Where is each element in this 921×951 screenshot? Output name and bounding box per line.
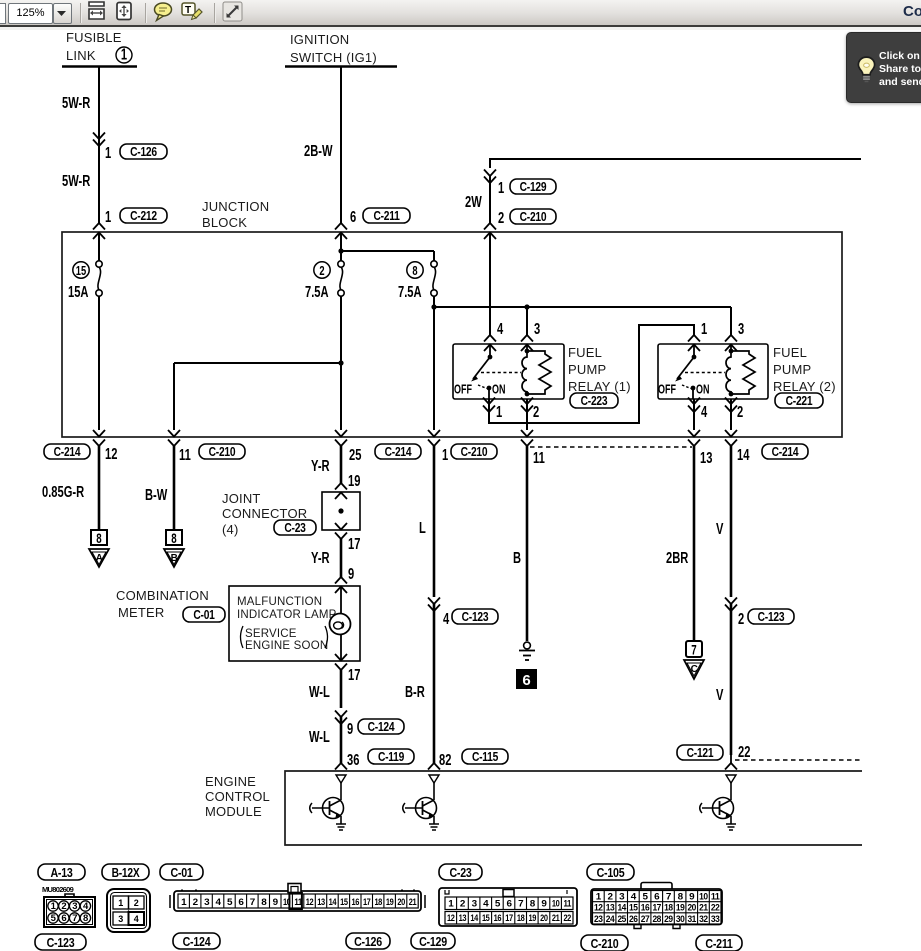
svg-text:12: 12 [306, 897, 314, 908]
ECM transistor Q2 [403, 775, 439, 830]
joint connector pin 19 [348, 472, 360, 489]
svg-text:C-105: C-105 [597, 865, 625, 880]
svg-text:PUMP: PUMP [568, 362, 606, 377]
relay1 pin 1 wire to relay2 pin 1 [483, 325, 700, 423]
svg-text:B-R: B-R [405, 683, 425, 700]
svg-text:19: 19 [348, 472, 360, 489]
exit crossing pin 25 [335, 430, 347, 446]
ground triangle A [89, 549, 109, 567]
svg-text:CONTROL: CONTROL [205, 789, 270, 804]
svg-text:20: 20 [540, 913, 548, 924]
svg-text:9: 9 [689, 892, 694, 903]
svg-text:18: 18 [517, 913, 525, 924]
svg-text:12: 12 [105, 445, 117, 462]
label B [513, 549, 521, 566]
connector C-210 pin 1 [442, 444, 497, 463]
connector C-210 pin 11 [179, 444, 245, 463]
connector C-212 pin 1 [105, 208, 167, 225]
svg-text:28: 28 [652, 914, 661, 925]
label Y-R upper [311, 457, 330, 474]
wire 2B-W from ignition switch [335, 66, 347, 239]
svg-text:12: 12 [447, 913, 455, 924]
svg-text:1: 1 [701, 320, 708, 337]
svg-text:C-119: C-119 [378, 751, 404, 764]
label V upper [716, 520, 723, 537]
connector C-211 pin 6 [350, 208, 410, 225]
svg-text:17: 17 [363, 897, 371, 908]
svg-text:5W-R: 5W-R [62, 172, 90, 189]
svg-text:MU802609: MU802609 [42, 885, 74, 894]
label W-L upper [309, 683, 330, 700]
lightbulb icon [858, 57, 874, 75]
A-13 part number [42, 885, 74, 894]
label B-W [145, 486, 168, 503]
svg-text:19: 19 [529, 913, 537, 924]
connector 7 box [686, 641, 702, 658]
svg-text:10: 10 [699, 892, 708, 903]
combination meter C-01 pill [183, 607, 225, 622]
svg-text:14: 14 [329, 897, 337, 908]
wire to relay1 pin 3 [521, 307, 533, 351]
svg-text:C-115: C-115 [472, 751, 499, 764]
connector C-123 pin 4 [443, 609, 498, 627]
svg-text:W-L: W-L [309, 683, 330, 700]
wire V [725, 446, 737, 770]
fusible link label [62, 30, 137, 67]
svg-text:C-210: C-210 [520, 211, 547, 224]
svg-text:SERVICE: SERVICE [245, 628, 297, 640]
joint connector box C-23 [322, 492, 360, 530]
exit crossing pin 12 [93, 430, 105, 446]
svg-text:B-W: B-W [145, 486, 168, 503]
svg-text:22: 22 [738, 743, 750, 760]
label 11 under relay1 [533, 449, 545, 466]
svg-text:LINK: LINK [66, 48, 96, 63]
svg-text:C-126: C-126 [354, 934, 382, 949]
svg-text:ENGINE: ENGINE [205, 774, 256, 789]
svg-text:3: 3 [472, 899, 477, 910]
label V lower [716, 686, 723, 703]
svg-text:8: 8 [412, 265, 417, 279]
svg-text:W-L: W-L [309, 728, 330, 745]
svg-text:B-12X: B-12X [112, 867, 140, 880]
svg-text:2: 2 [738, 610, 744, 627]
ground triangle B [164, 549, 184, 567]
exit crossing pin 11 [168, 430, 180, 446]
wire W-L to ECM [335, 670, 347, 770]
connector C-211 pill (bottom) [696, 935, 742, 951]
svg-text:3: 3 [118, 914, 123, 924]
svg-text:13: 13 [700, 449, 713, 466]
svg-text:7: 7 [691, 643, 697, 658]
svg-text:C-211: C-211 [705, 936, 733, 951]
relay2 pin 2 wire down [725, 398, 737, 447]
connector C-129 pin 1 [498, 179, 556, 196]
svg-text:17: 17 [505, 913, 513, 924]
relay1 pin 2 label [533, 403, 539, 420]
malfunction indicator lamp text [237, 596, 337, 621]
svg-text:C-214: C-214 [54, 446, 81, 459]
svg-text:2W: 2W [465, 193, 482, 210]
label 13 under relay2 [700, 449, 713, 466]
svg-text:6: 6 [507, 899, 512, 910]
svg-text:C-126: C-126 [130, 146, 157, 159]
svg-text:17: 17 [652, 903, 661, 914]
svg-text:C-211: C-211 [373, 210, 400, 223]
svg-text:3: 3 [534, 320, 541, 337]
svg-text:3: 3 [204, 897, 209, 908]
label 2W [465, 193, 482, 210]
zoom dropdown button [53, 3, 72, 24]
svg-text:METER: METER [118, 605, 165, 620]
wire L [428, 446, 440, 770]
svg-text:36: 36 [347, 751, 360, 768]
joint connector C-23 pill [274, 520, 316, 535]
exit crossing pin 1 [428, 430, 440, 446]
fuse 15 (15A) [68, 261, 102, 301]
svg-text:25: 25 [617, 914, 627, 925]
svg-text:8: 8 [83, 913, 88, 924]
svg-text:12: 12 [594, 903, 603, 914]
ground number 6 black box [516, 669, 537, 689]
svg-text:20: 20 [687, 903, 696, 914]
svg-text:C-214: C-214 [385, 446, 412, 459]
svg-text:11: 11 [179, 446, 191, 463]
fuse 2 (7.5A) [305, 261, 344, 301]
svg-text:27: 27 [641, 914, 650, 925]
svg-text:13: 13 [459, 913, 467, 924]
svg-text:25: 25 [349, 446, 362, 463]
svg-text:RELAY (1): RELAY (1) [568, 379, 631, 394]
connector C-01 pill [160, 864, 203, 880]
svg-text:C-129: C-129 [419, 934, 447, 949]
svg-text:21: 21 [552, 913, 560, 924]
relay2 pin 2 label [737, 403, 743, 420]
svg-text:11: 11 [533, 449, 545, 466]
connector C-126 pin 1 [105, 144, 167, 161]
svg-text:MALFUNCTION: MALFUNCTION [237, 596, 322, 608]
svg-text:15A: 15A [68, 283, 89, 300]
svg-text:4: 4 [701, 403, 708, 420]
svg-text:C-23: C-23 [284, 522, 305, 535]
label 5W-R upper [62, 94, 90, 111]
svg-text:RELAY (2): RELAY (2) [773, 379, 836, 394]
svg-text:20: 20 [397, 897, 405, 908]
svg-text:22: 22 [711, 903, 720, 914]
svg-text:C: C [691, 664, 698, 675]
svg-text:9: 9 [348, 565, 354, 582]
relay2 pin labels 1 and 3 [701, 320, 745, 337]
svg-text:8: 8 [171, 532, 177, 547]
connector C-105 pill [587, 864, 634, 880]
fuel pump relay 1 box [453, 344, 564, 399]
svg-text:C-123: C-123 [462, 611, 489, 624]
branch to fuse 8 [338, 248, 434, 261]
svg-text:13: 13 [317, 897, 325, 908]
svg-text:C-123: C-123 [758, 611, 785, 624]
svg-text:C-210: C-210 [461, 446, 488, 459]
svg-text:C-210: C-210 [591, 936, 619, 951]
svg-text:1: 1 [105, 208, 112, 225]
svg-text:2: 2 [737, 403, 743, 420]
label 0.85G-R [42, 483, 84, 500]
svg-text:FUEL: FUEL [773, 345, 807, 360]
Comment panel label (cut off) [903, 3, 921, 20]
svg-text:B: B [171, 553, 178, 564]
label B-R [405, 683, 425, 700]
relay2 resistor [731, 351, 755, 394]
svg-text:MODULE: MODULE [205, 804, 262, 819]
toolbar [0, 0, 921, 25]
relay1 pin 4 label [497, 320, 504, 337]
relay1 coil [522, 344, 529, 396]
connector C-129 pill (bottom) [411, 933, 455, 949]
label 2B-W [304, 142, 333, 159]
relay1 name [568, 345, 631, 394]
svg-text:23: 23 [594, 914, 603, 925]
svg-text:(4): (4) [222, 522, 239, 537]
wire 2BR [693, 446, 696, 641]
svg-text:C-23: C-23 [449, 865, 472, 880]
svg-text:8: 8 [96, 532, 102, 547]
svg-text:11: 11 [711, 892, 721, 903]
svg-text:1: 1 [442, 446, 449, 463]
branch inside block to pin 11 exit [174, 360, 344, 430]
svg-text:15: 15 [76, 265, 86, 279]
svg-text:2: 2 [608, 892, 613, 903]
connector C-124 pill (bottom) [173, 933, 220, 949]
wire Y-R to meter [335, 539, 347, 593]
svg-text:COMBINATION: COMBINATION [116, 588, 209, 603]
relay2 name [773, 345, 836, 394]
svg-text:IGNITION: IGNITION [290, 32, 349, 47]
relay1 connector C-223 [570, 393, 618, 408]
svg-text:16: 16 [641, 903, 650, 914]
svg-text:29: 29 [664, 914, 673, 925]
svg-text:JOINT: JOINT [222, 491, 261, 506]
C-01 connector drawing [170, 884, 425, 912]
relay1 pin 3 label [534, 320, 541, 337]
svg-text:18: 18 [374, 897, 382, 908]
joint connector label [222, 491, 307, 537]
svg-text:7: 7 [72, 913, 77, 924]
svg-text:8: 8 [678, 892, 683, 903]
svg-text:L: L [419, 519, 426, 536]
wire 0.85G-R [98, 446, 101, 530]
relay2 pin 4 wire down [688, 398, 700, 447]
fuel pump relay 2 box [658, 344, 768, 399]
svg-text:8: 8 [530, 899, 535, 910]
svg-text:CONNECTOR: CONNECTOR [222, 506, 307, 521]
icon resize arrows [223, 2, 242, 21]
svg-text:C-221: C-221 [786, 395, 813, 408]
svg-text:2: 2 [498, 209, 504, 226]
svg-text:16: 16 [494, 913, 502, 924]
svg-text:3: 3 [738, 320, 745, 337]
svg-text:C-210: C-210 [209, 446, 236, 459]
svg-text:17: 17 [348, 535, 360, 552]
ECM label [205, 774, 270, 819]
wire fuse8 down and to relays [431, 296, 731, 430]
icon scroll-pages [89, 2, 104, 19]
connector 8 box A [91, 530, 107, 546]
label 5W-R lower [62, 172, 90, 189]
svg-text:11: 11 [563, 899, 572, 910]
relay1 resistor [527, 351, 551, 394]
svg-text:C-124: C-124 [183, 934, 211, 949]
svg-text:2BR: 2BR [666, 549, 689, 566]
page box edge fragment [0, 3, 6, 24]
ground symbol [519, 642, 535, 660]
wire inside block from C-211 [340, 232, 342, 430]
svg-text:2: 2 [134, 898, 139, 908]
wire 2W to top right [484, 159, 861, 239]
connector C-23 pill (bottom) [439, 864, 482, 880]
MIL lamp [330, 586, 351, 661]
svg-text:8: 8 [261, 897, 266, 908]
svg-text:13: 13 [606, 903, 615, 914]
icon highlight text [182, 3, 202, 20]
connector A-13 pill [38, 864, 85, 880]
svg-text:C-214: C-214 [772, 446, 799, 459]
svg-text:A-13: A-13 [50, 865, 73, 880]
connector C-123 pin 2 [738, 609, 794, 627]
wire B [526, 446, 529, 641]
svg-text:PUMP: PUMP [773, 362, 811, 377]
relay1 pin 1 label [496, 403, 503, 420]
svg-text:2: 2 [193, 897, 198, 908]
meter exit pin 17 [335, 654, 360, 683]
svg-text:15: 15 [482, 913, 490, 924]
svg-text:6: 6 [350, 208, 357, 225]
ECM transistor Q1 (MIL driver) [310, 775, 346, 830]
svg-text:31: 31 [687, 914, 697, 925]
svg-text:INDICATOR LAMP: INDICATOR LAMP [237, 609, 337, 621]
svg-text:C-212: C-212 [130, 210, 157, 223]
svg-text:6: 6 [654, 892, 659, 903]
svg-text:SWITCH (IG1): SWITCH (IG1) [290, 50, 377, 65]
C-23 connector drawing [439, 888, 577, 926]
fuse 8 (7.5A) [398, 261, 437, 301]
svg-text:7.5A: 7.5A [398, 283, 422, 300]
dashed connector line C-214 [530, 446, 692, 448]
wire to relay2 pin 3 [725, 307, 737, 351]
joint connector pin 17 [335, 523, 360, 552]
svg-text:C-01: C-01 [193, 609, 215, 622]
svg-text:OFF: OFF [658, 383, 676, 397]
svg-text:1: 1 [121, 46, 128, 63]
label L [419, 519, 426, 536]
junction block label [202, 199, 269, 230]
svg-text:BLOCK: BLOCK [202, 215, 247, 230]
service engine soon text [241, 626, 329, 652]
svg-text:19: 19 [386, 897, 394, 908]
svg-text:C-129: C-129 [520, 181, 547, 194]
B-12X connector drawing [107, 889, 150, 932]
svg-text:2: 2 [533, 403, 539, 420]
A-13 connector drawing [44, 894, 95, 927]
connector 8 box B [166, 530, 182, 546]
svg-text:14: 14 [470, 913, 478, 924]
svg-text:C-121: C-121 [687, 747, 714, 760]
ECM transistor Q3 [700, 775, 736, 830]
svg-text:2: 2 [460, 899, 465, 910]
label W-L lower [309, 728, 330, 745]
svg-text:6: 6 [238, 897, 243, 908]
svg-text:4: 4 [134, 914, 139, 924]
connector B-12X pill [102, 864, 149, 880]
svg-text:14: 14 [737, 446, 750, 463]
svg-text:V: V [716, 686, 723, 703]
ground triangle C [684, 660, 704, 679]
svg-text:32: 32 [699, 914, 708, 925]
svg-text:6: 6 [522, 672, 530, 689]
svg-text:24: 24 [606, 914, 616, 925]
relay1 switch [454, 344, 521, 399]
svg-text:17: 17 [348, 666, 360, 683]
wire inside block from C-212 [98, 232, 100, 430]
connector C-121 pin 22 [677, 743, 750, 760]
svg-text:OFF: OFF [454, 383, 472, 397]
svg-text:30: 30 [676, 914, 685, 925]
relay1 pin 2 wire down [521, 398, 533, 447]
svg-text:2: 2 [61, 901, 66, 912]
icon fit-page [117, 3, 131, 20]
svg-text:5W-R: 5W-R [62, 94, 90, 111]
svg-text:33: 33 [711, 914, 720, 925]
svg-text:JUNCTION: JUNCTION [202, 199, 269, 214]
svg-text:ON: ON [696, 383, 710, 397]
svg-text:1: 1 [496, 403, 503, 420]
svg-text:V: V [716, 520, 723, 537]
icon comment bubble [155, 3, 172, 21]
svg-text:Y-R: Y-R [311, 549, 330, 566]
connector C-119 pin 36 [347, 749, 414, 768]
ignition switch label [285, 32, 397, 67]
wire Y-R to joint connector [335, 446, 347, 499]
toolbar icons svg [0, 0, 260, 26]
junction block box [62, 232, 842, 437]
svg-text:14: 14 [617, 903, 627, 914]
combination meter box [229, 586, 360, 661]
dashed continuation line [735, 759, 862, 761]
connector C-115 pin 82 [439, 749, 508, 768]
connector C-214 pin 25 [349, 444, 421, 463]
svg-text:C-124: C-124 [368, 721, 395, 734]
svg-text:10: 10 [552, 899, 560, 910]
svg-text:0.85G-R: 0.85G-R [42, 483, 84, 500]
connector C-210 pill (bottom) [581, 935, 628, 951]
relay2 coil [726, 344, 733, 396]
wire B-W [173, 446, 176, 530]
svg-text:C-223: C-223 [581, 395, 608, 408]
svg-text:22: 22 [563, 913, 571, 924]
svg-text:1: 1 [498, 179, 505, 196]
svg-text:2B-W: 2B-W [304, 142, 333, 159]
combination meter label [116, 588, 209, 620]
svg-text:18: 18 [664, 903, 673, 914]
svg-text:3: 3 [619, 892, 624, 903]
svg-text:7: 7 [666, 892, 671, 903]
svg-text:21: 21 [409, 897, 417, 908]
svg-text:21: 21 [699, 903, 709, 914]
svg-text:ENGINE SOON: ENGINE SOON [245, 640, 328, 652]
svg-text:15: 15 [340, 897, 348, 908]
svg-text:6: 6 [61, 913, 66, 924]
svg-text:1: 1 [105, 144, 112, 161]
svg-text:7.5A: 7.5A [305, 283, 329, 300]
label Y-R lower [311, 549, 330, 566]
